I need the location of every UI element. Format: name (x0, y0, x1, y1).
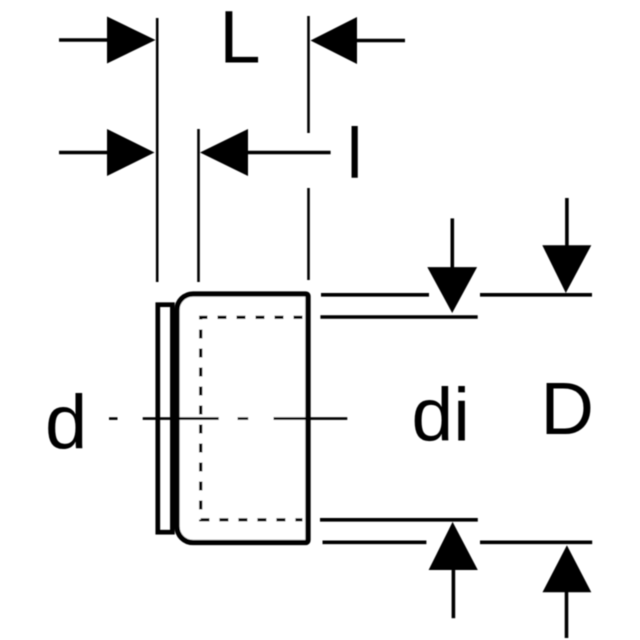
center line (axis) (109, 417, 347, 420)
D top arrow tail (565, 198, 569, 248)
cap body outline (177, 294, 308, 543)
svg-text:l: l (347, 115, 363, 194)
extension line right face lower (x=308.5) (307, 188, 310, 280)
di top arrowhead (427, 267, 477, 313)
D top extension line (with gap for arrow) (321, 293, 592, 297)
D top arrowhead (542, 245, 591, 293)
dimension l right arrowhead (200, 129, 248, 176)
cap lip (socket rim) (158, 305, 173, 533)
D bottom arrow tail (565, 590, 569, 638)
extension line left face (x=157) (156, 18, 159, 282)
label D (541, 367, 594, 450)
dimension l left leader line (59, 151, 110, 155)
di top extension line (320, 315, 477, 319)
svg-text:d: d (45, 380, 87, 465)
svg-text:D: D (541, 367, 594, 450)
dimension L right leader line (355, 39, 405, 43)
cavity dashed outline (hidden line) (201, 317, 303, 520)
D bottom extension line (with gap for arrow) (323, 540, 593, 544)
dimension L left leader line (59, 38, 110, 42)
svg-text:di: di (412, 373, 470, 457)
di bottom extension line (320, 518, 478, 522)
D bottom arrowhead (543, 545, 592, 592)
extension line right face upper (x=308.5) (307, 16, 310, 133)
label d (45, 380, 87, 465)
di top arrow tail (450, 218, 454, 270)
label L (219, 0, 260, 79)
extension line insertion depth (x=198.5) (197, 129, 200, 282)
svg-text:L: L (219, 0, 260, 79)
di bottom arrow tail (452, 568, 456, 618)
dimension L left arrowhead (107, 17, 156, 64)
dimension l left arrowhead (107, 129, 155, 176)
dimension L right arrowhead (311, 17, 358, 64)
label l (347, 115, 363, 194)
di bottom arrowhead (429, 522, 478, 570)
label di (412, 373, 470, 457)
dimension l right leader line (248, 151, 331, 155)
